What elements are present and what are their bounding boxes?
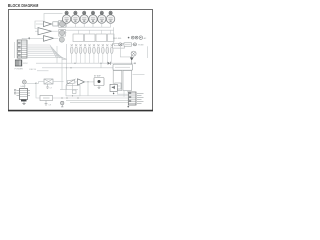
wire T1 to TB [118,91,129,95]
wire crystal out [53,81,64,83]
wire input to U1 [36,23,44,25]
wire bus fan [27,49,60,58]
wire vertical a [61,59,63,90]
transformer block FL1 hatched [15,58,21,66]
capacitor C2 under crystal [46,84,52,89]
wire bottom bus 2 [53,97,129,99]
node U4 out junction [87,81,88,82]
svg-text:C9: C9 [49,105,51,107]
node bus dot [61,97,62,98]
coil can L3 [59,37,64,42]
wire P1 drop [36,83,40,98]
wire U1 top to tube caps [44,13,63,21]
block PS1 [40,96,53,101]
wire bottom link [60,89,78,91]
node bus dot [66,97,67,98]
wire bottom bus 1 [66,95,128,97]
block A5 with label [113,44,125,49]
svg-text:115V: 115V [23,63,28,65]
node bus dot2 [72,95,73,96]
terminal strip TB1 [128,92,143,105]
transformer T2 [123,71,132,91]
wire bus merge [62,58,67,60]
wire bus fan [27,45,56,58]
wire mid line A [36,62,108,64]
wire bus fan [27,51,61,58]
wire feedback loop U1 [35,21,44,29]
node dot [70,67,71,68]
wire U4 out drop [87,82,89,96]
wire T2 right [133,73,145,75]
block A1 [73,30,84,41]
enclosure bottom line [56,46,58,63]
svg-text:BLOCK DIAGRAM: BLOCK DIAGRAM [8,3,39,9]
wire U4 out [85,81,95,83]
trimmer VR5 [88,44,91,63]
ground under U5 [22,104,25,105]
jack JK2 [135,36,138,39]
op-amp U3 [44,36,54,42]
node dot mid [74,63,75,64]
svg-text:AF AMP: AF AMP [94,74,102,77]
node dot TB [128,106,130,108]
block A3 [96,30,107,41]
lamp F1 [131,51,136,56]
block S1 inside T1 [115,83,121,89]
trimmer VR8 [102,44,105,63]
wire TB down [127,105,129,106]
wire mid line C [42,67,113,69]
diode D1 [108,62,111,65]
wire crystal in [39,81,45,83]
transformer T1 [113,71,122,91]
wire F1 down [133,56,135,57]
block B1 rectifier [113,64,133,70]
wire bus under tubes [62,26,111,28]
tube V6 [106,11,114,28]
op-amp U2 [38,28,52,35]
wire bottom bus 4 [70,101,128,103]
coil can L1 [59,20,66,27]
wire U4 in [75,81,78,83]
speaker SP1 [110,84,117,94]
svg-text:REG SEL: REG SEL [113,38,123,40]
svg-text:OSC B: OSC B [29,69,36,71]
block A4 [108,30,115,41]
wire bus fan [27,55,65,59]
node bus dot [77,97,78,98]
wire bus fan [27,47,58,58]
trimmer VR10 [110,44,113,63]
node junction dot [28,38,30,40]
wire bottom bus 3 [66,99,128,101]
svg-text:C7: C7 [50,87,52,89]
wire U1 out [57,23,59,25]
wire trimmer drop [66,44,68,63]
op-amp U1 [44,22,52,27]
trimmer VR7 [97,44,100,63]
border frame [8,10,153,111]
wire bus fan [27,57,67,59]
wire row2 [122,43,124,45]
IC U5 [17,89,31,104]
op-amp U4 [78,79,85,85]
pin pads U5 [14,89,16,94]
node dot mid [100,63,101,64]
block A2 [85,30,96,41]
wire mid drop [100,64,102,68]
enclosure box E1 [66,84,80,96]
resistor R1 [53,22,58,26]
node dot B+ [134,63,135,64]
wire U5 up [23,84,25,89]
wire diode to rect [110,62,135,65]
jack JK1 [131,36,134,39]
wire L2 out [65,32,66,34]
tube V3 [80,11,88,28]
wire U2 out [52,30,58,32]
lamp P1 [22,80,26,84]
wire second bus under tubes [66,29,114,31]
wire J1 stem [21,38,23,40]
node dot r1 [128,37,130,39]
lamp G3 [61,101,64,107]
svg-text:FUSE: FUSE [138,45,144,47]
trimmer VR1 [70,44,73,63]
node dot P1 [35,83,36,84]
coil can L2 [59,30,66,37]
jack JK5 [132,43,137,46]
wire P1 right [26,82,36,84]
svg-text:LAMP: LAMP [20,85,26,88]
wire input to U3 [31,38,44,40]
wire right vertical [147,46,149,58]
wire input to U2 [35,30,38,32]
ground under PS1 [45,101,51,107]
wire U3 out [54,37,59,39]
svg-text:POWER: POWER [15,68,24,70]
crystal X1 [44,79,53,84]
trimmer VR3 [79,44,82,63]
meter M1 [94,74,104,88]
wire bus fan [27,53,63,58]
connector J1 [17,40,27,58]
wire T2b [123,91,125,97]
jack JK4 [119,43,122,46]
trimmer VR2 [75,44,78,63]
wire P1 to crystal [36,82,39,84]
trimmer VR9 [106,44,109,63]
wire A5 up [113,27,115,43]
node dot [66,67,67,68]
trimmer VR6 [93,44,96,63]
tube V4 [89,11,97,28]
wire L1 to V1 [66,23,68,25]
tube V2 [71,11,79,28]
transistor Q1 [130,54,134,64]
wire J1 left rail [14,42,16,58]
wire T2 to TB [126,91,128,93]
source G1 [66,79,75,85]
tube V1 [62,11,70,28]
wire mid line B [37,70,49,72]
wire JK4 down [120,46,131,57]
wire vertical b [66,63,68,90]
trimmer VR4 [84,44,87,63]
wire J1 top [22,37,31,39]
switch SW1 [124,43,132,46]
jack JK3 [139,36,142,39]
tube V5 [98,11,106,28]
